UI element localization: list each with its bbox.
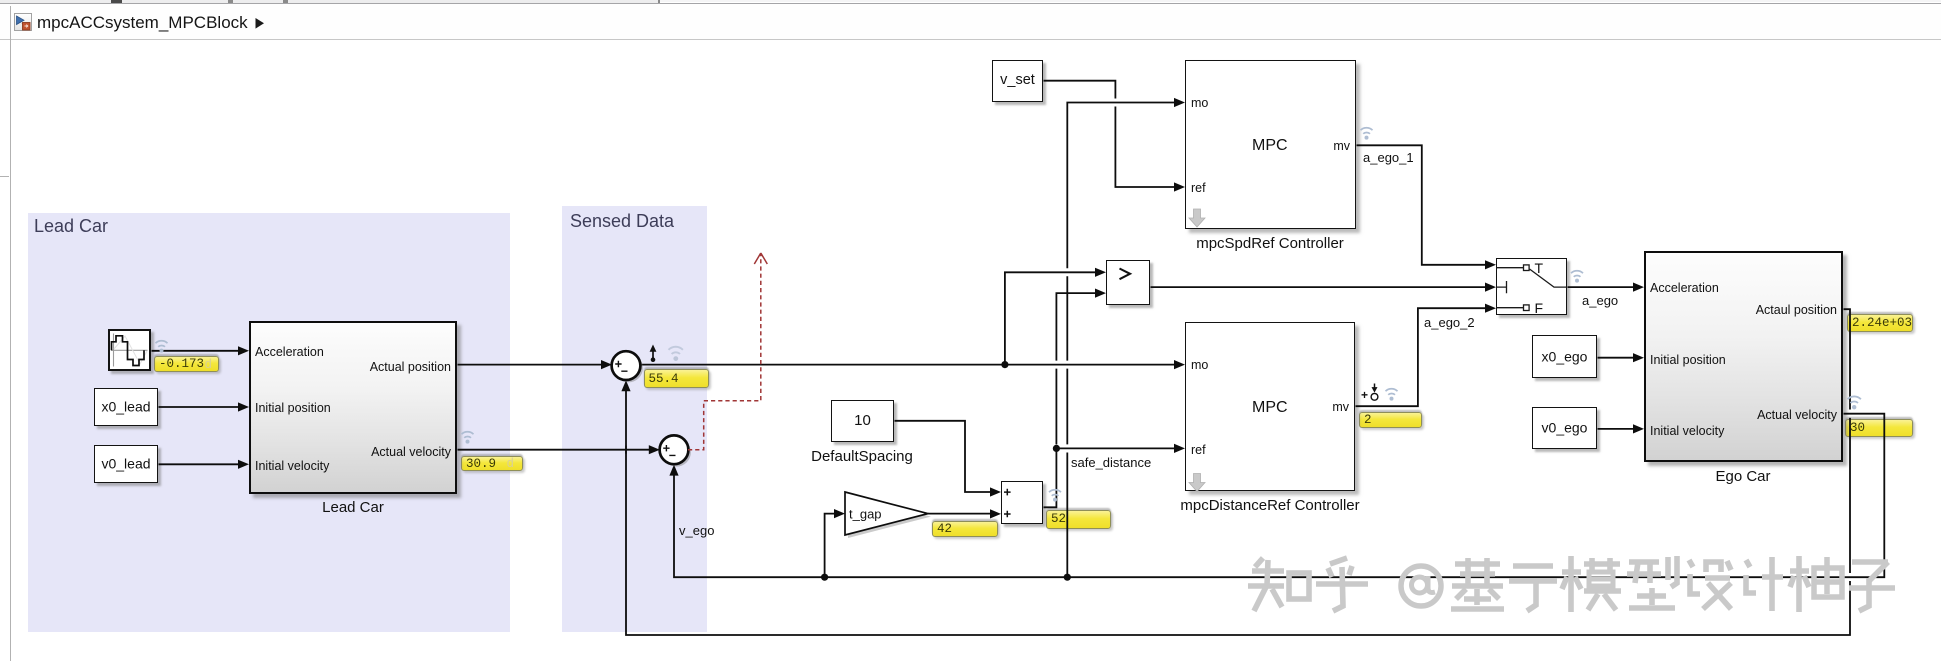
wire sum1 bottom entry segment bbox=[625, 446, 627, 454]
constant v0_lead bbox=[94, 445, 158, 483]
wire junction up to relational in2 bbox=[1056, 293, 1097, 444]
constant v0_ego bbox=[1532, 407, 1597, 449]
wire x0_ego to EgoCar.Initial position bbox=[1598, 357, 1636, 359]
value label 2.24e+03 bbox=[1847, 314, 1913, 332]
constant x0_lead bbox=[94, 388, 158, 426]
wire mpcDistanceRef.mv to switch F bbox=[1356, 308, 1488, 406]
wire v0_ego to EgoCar.Initial velocity bbox=[1598, 428, 1636, 430]
signal editor source block bbox=[108, 329, 152, 371]
value label 2 bbox=[1359, 412, 1422, 428]
breadcrumb bar bbox=[0, 4, 1941, 40]
value label 55.4 bbox=[644, 369, 709, 388]
value label 30 bbox=[1845, 419, 1913, 437]
wifi badge near mpcSpdRef mv bbox=[1361, 128, 1373, 140]
switch block innards bbox=[1496, 265, 1567, 311]
wire add out up to junction bbox=[1044, 448, 1057, 507]
wifi badge near switch bbox=[1571, 271, 1583, 283]
value label -0.173 bbox=[154, 356, 219, 372]
constant v_set bbox=[992, 60, 1043, 102]
wifi badge near EgoCar velocity out bbox=[1848, 396, 1861, 409]
left rail line bbox=[10, 6, 11, 661]
mo bbox=[1568, 556, 1574, 612]
wire v_set to mpcSpdRef.ref bbox=[1044, 81, 1177, 187]
output measurement badge (+ circle arrow) near mpcDistanceRef mv bbox=[1361, 384, 1378, 403]
wire junction to mpcDistanceRef.ref (safe_distance) bbox=[1056, 447, 1176, 449]
region Sensed Data bbox=[562, 206, 707, 632]
sum block 2 (circle) bbox=[660, 435, 691, 466]
value label 52 bbox=[1046, 510, 1111, 529]
gray export arrow inside mpcDistanceRef bbox=[1189, 474, 1205, 492]
add (sum) block bbox=[1001, 481, 1043, 524]
relational operator glyph bbox=[1120, 269, 1131, 280]
linearization input badge (arrow up with dot) near sum1 bbox=[650, 345, 657, 363]
signal editor waveform bbox=[111, 334, 148, 367]
hu bbox=[1330, 558, 1347, 564]
wire position feedback: Ego Car out, down, bottom, up into sum1 bbox=[626, 309, 1850, 635]
MPC block mpcDistanceRef Controller bbox=[1185, 322, 1355, 491]
wire relational out to switch mid bbox=[1151, 286, 1488, 288]
wire mpcSpdRef.mv to switch T bbox=[1357, 145, 1488, 264]
xing bbox=[1629, 559, 1659, 565]
ji2 bbox=[1746, 560, 1750, 567]
label v_ego bbox=[679, 524, 714, 537]
value label 30.9 bbox=[461, 456, 523, 471]
wire const10 to add in1 bbox=[895, 421, 993, 492]
zi bbox=[1852, 559, 1888, 565]
label safe_distance bbox=[1071, 456, 1151, 469]
value label 42 bbox=[932, 521, 998, 538]
add block plus marks bbox=[1004, 489, 1011, 518]
wire x0_lead to LeadCar.Initial position bbox=[159, 406, 241, 408]
wifi badge near mpcDistanceRef mv bbox=[1386, 389, 1398, 401]
wire branch v feedback up to mpcSpdRef.mo bbox=[1067, 103, 1176, 578]
wire v0_lead to LeadCar.Initial velocity bbox=[159, 463, 241, 465]
wire switch out to EgoCar.Acceleration bbox=[1568, 286, 1636, 288]
gain triangle t_gap bbox=[845, 492, 931, 538]
wire t_gap out to add in2 bbox=[928, 513, 992, 515]
switch block bbox=[1496, 258, 1567, 315]
constant x0_ego bbox=[1532, 335, 1597, 378]
breadcrumb icon art bbox=[17, 16, 25, 25]
wifi badge near add block bbox=[1049, 490, 1061, 502]
top toolbar edge strip bbox=[0, 0, 659, 3]
model icon bbox=[14, 13, 32, 31]
wire velocity feedback: Ego Car out, down, long line, up into sum2 bbox=[674, 414, 1884, 578]
subsystem Lead Car bbox=[249, 321, 457, 494]
wire branch v feedback up to t_gap bbox=[825, 514, 836, 578]
constant 10 bbox=[831, 400, 894, 442]
ji bbox=[1455, 561, 1500, 567]
gray export arrow inside mpcSpdRef bbox=[1189, 209, 1205, 227]
wire LeadCar.Actual position to sum1 bbox=[458, 364, 604, 366]
you bbox=[1796, 556, 1802, 612]
zhi bbox=[1255, 558, 1263, 567]
wifi badge near siggen bbox=[156, 341, 168, 353]
sum block 1 (circle) bbox=[612, 351, 643, 382]
wire branch sum1-out up to relational in1 bbox=[1005, 272, 1097, 364]
she bbox=[1689, 560, 1693, 567]
wifi badge near sum1 bbox=[669, 347, 683, 361]
wire LeadCar.Actual velocity to sum2 bbox=[458, 449, 652, 451]
subsystem Ego Car bbox=[1644, 251, 1843, 462]
wifi badge near LeadCar velocity out bbox=[462, 432, 474, 444]
red dashed tentative wire from sum2 bbox=[688, 254, 761, 450]
relational operator block > bbox=[1106, 260, 1150, 305]
arrowheads bbox=[238, 98, 1644, 519]
yu bbox=[1513, 563, 1553, 569]
wire sum1 to mpcDistanceRef.mo with branch bbox=[640, 364, 1176, 366]
MPC block mpcSpdRef Controller bbox=[1185, 60, 1356, 229]
breadcrumb caret bbox=[256, 18, 265, 29]
junction dots bbox=[821, 361, 1071, 581]
wire siggen to LeadCar.Acceleration bbox=[152, 350, 241, 352]
region Lead Car bbox=[28, 213, 510, 632]
at sign bbox=[1401, 566, 1441, 606]
